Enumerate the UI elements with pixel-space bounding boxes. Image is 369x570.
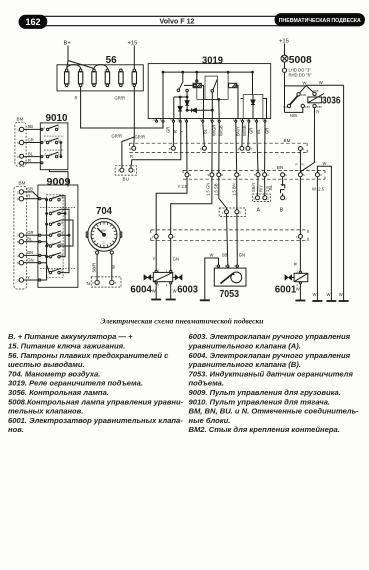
- svg-text:2: 2: [166, 283, 168, 287]
- BN pin (to B): [281, 173, 288, 178]
- BN pin BN (to 7053): [235, 122, 242, 177]
- svg-text:GR/R: GR/R: [135, 135, 145, 140]
- connector A: [251, 177, 270, 214]
- fuse jumper F3-F4: [94, 65, 107, 69]
- wire SB/R from 704 to N block: [92, 254, 98, 280]
- wire C30 to right ground run W: [300, 80, 344, 301]
- svg-text:ные блоки.: ные блоки.: [189, 416, 231, 425]
- header section pill: [275, 14, 365, 26]
- BN pin R/Y (to A): [263, 122, 270, 177]
- svg-text:ПНЕВМАТИЧЕСКАЯ ПОДВЕСКА: ПНЕВМАТИЧЕСКАЯ ПОДВЕСКА: [279, 18, 361, 24]
- svg-text:GR: GR: [166, 127, 171, 133]
- svg-text:1: 1: [285, 196, 287, 200]
- wire Y to 6004: [153, 238, 157, 270]
- svg-text:7: 7: [17, 234, 19, 238]
- 9009 switch row 3: [49, 220, 64, 226]
- svg-text:3: 3: [320, 173, 322, 177]
- BN pin (to 6001 run): [298, 173, 305, 178]
- ground W run 1: [312, 292, 322, 301]
- svg-text:R: R: [75, 96, 78, 101]
- svg-text:+15: +15: [279, 39, 289, 45]
- svg-text:+15: +15: [128, 41, 138, 47]
- connector B: [268, 177, 287, 214]
- wire R from C85 down to BN: [301, 108, 320, 172]
- svg-text:6004: 6004: [130, 284, 152, 296]
- label 6004: [130, 284, 152, 296]
- control panel 9010 (tractor): [15, 112, 68, 170]
- connector rail N (long): [151, 230, 308, 241]
- svg-text:15. Питание ключа зажигания.: 15. Питание ключа зажигания.: [8, 342, 125, 351]
- indicator lamp 5008: [279, 39, 312, 113]
- svg-text:5008: 5008: [289, 54, 312, 66]
- svg-text:BL: BL: [268, 184, 273, 190]
- BM rail pin (GR/R): [129, 146, 135, 151]
- 704 dial ticks: [91, 222, 117, 248]
- svg-text:11: 11: [49, 153, 52, 157]
- svg-text:3: 3: [17, 279, 19, 283]
- BN pin SB (to 7053): [217, 122, 224, 177]
- svg-text:12: 12: [60, 220, 64, 224]
- svg-text:Y 2.5: Y 2.5: [178, 184, 188, 189]
- 3019 diode D1: [178, 97, 182, 119]
- svg-text:Электрическая схема пневматиче: Электрическая схема пневматической подве…: [100, 317, 263, 326]
- BN pin W (ground return): [315, 173, 322, 178]
- svg-text:R: R: [28, 158, 31, 163]
- wire Y2.5 route to valve 6004: [156, 177, 188, 235]
- svg-text:R: R: [293, 262, 298, 265]
- ground 6001: [295, 300, 305, 302]
- svg-text:R: R: [130, 154, 133, 159]
- wire GR/R branch to BU pin 1: [122, 137, 134, 168]
- valve symbol left of 6001: [285, 275, 294, 281]
- svg-text:15: 15: [152, 118, 156, 122]
- 3019 output sub-box with diode D4: [241, 72, 267, 118]
- svg-text:N/B: N/B: [290, 113, 297, 118]
- svg-text:SB/Y: SB/Y: [251, 182, 256, 192]
- svg-text:БМ: БМ: [102, 229, 107, 233]
- svg-text:13: 13: [52, 210, 56, 214]
- svg-text:W: W: [210, 253, 214, 258]
- 3019 junction row: [174, 96, 188, 118]
- 3036 terminal C87: [301, 104, 310, 109]
- svg-text:8: 8: [221, 173, 223, 177]
- svg-text:GR: GR: [248, 128, 253, 134]
- svg-text:W: W: [339, 292, 343, 297]
- svg-text:6001. Электрозатвор уравнитель: 6001. Электрозатвор уравнительных клапа-: [8, 416, 183, 425]
- wire GR/R branch to BM rail pin: [133, 137, 136, 146]
- 3019 relay contact K2: [211, 79, 220, 118]
- wire W 6004 to ground: [152, 284, 156, 300]
- 9010 switch row 2: [46, 138, 61, 144]
- svg-text:R: R: [316, 110, 319, 115]
- 7053 top pins: [215, 264, 238, 268]
- svg-text:подъема.: подъема.: [189, 379, 225, 388]
- 3019 wire colour labels: [166, 125, 270, 136]
- header title Volvo F 12: [160, 17, 195, 25]
- 3019 pin numbers: [152, 118, 264, 122]
- svg-text:ВМ: ВМ: [17, 117, 24, 122]
- BN pin GN (to 6003): [208, 122, 214, 177]
- 3019 internal top bus: [162, 71, 253, 118]
- connector rail BM: [129, 138, 307, 152]
- wire label R under fuse 2: [75, 96, 78, 101]
- svg-text:BL: BL: [27, 237, 33, 242]
- ground 6003: [166, 299, 176, 301]
- wire GN from BM2 to 7053: [237, 214, 245, 265]
- svg-text:1: 1: [253, 196, 255, 200]
- svg-text:W: W: [323, 161, 327, 166]
- svg-text:15: 15: [52, 196, 56, 200]
- wire SB route to BM2: [213, 177, 226, 210]
- wire W2.5 from BN pin down to ground: [312, 177, 325, 301]
- wire 5008 to C65: [285, 81, 314, 93]
- fuse F6: [132, 69, 136, 87]
- svg-text:△: △: [103, 240, 106, 244]
- 3019 relay coil K1: [184, 83, 204, 118]
- wire GR/R from fuse6 down: [112, 87, 145, 140]
- 9010 switch row 1: [46, 125, 59, 131]
- wire W 7053 to ground: [205, 253, 219, 301]
- 3019 contact terminal circle: [186, 89, 189, 97]
- svg-text:704. Манометр воздуха.: 704. Манометр воздуха.: [8, 369, 100, 378]
- wire N/B bottom link 5008-C87: [285, 108, 303, 118]
- svg-text:W: W: [313, 292, 317, 297]
- N rail pin 1 (Y): [152, 234, 158, 239]
- svg-text:162: 162: [25, 17, 40, 27]
- svg-text:1: 1: [134, 169, 136, 173]
- 3019 lower junction row: [186, 109, 213, 111]
- svg-text:1: 1: [222, 210, 224, 214]
- svg-text:C87: C87: [305, 105, 311, 109]
- svg-text:R: R: [302, 163, 304, 167]
- wire W bracket over BN to ground run: [317, 161, 331, 301]
- node B+: [64, 41, 95, 70]
- air manometer 704: [86, 205, 122, 251]
- 3036 terminal C65: [313, 89, 319, 96]
- svg-text:5008.Контрольная лампа управле: 5008.Контрольная лампа управления уравни…: [8, 397, 184, 406]
- 9010 connector pins BM: [17, 127, 24, 165]
- 3036 terminal KV3: [283, 104, 290, 109]
- svg-text:1.5 BN: 1.5 BN: [231, 183, 236, 196]
- svg-text:3056. Контрольная лампа.: 3056. Контрольная лампа.: [8, 388, 109, 397]
- svg-text:9010: 9010: [46, 112, 68, 124]
- svg-text:W: W: [173, 289, 177, 294]
- svg-text:78: 78: [170, 118, 174, 122]
- connector BM2 (to 7053): [219, 208, 245, 217]
- wire R to 6001: [299, 238, 301, 271]
- svg-text:10: 10: [49, 139, 53, 143]
- svg-text:BL: BL: [28, 151, 34, 156]
- svg-text:31: 31: [52, 269, 56, 273]
- svg-text:11: 11: [52, 220, 55, 224]
- svg-text:56. Патроны плавких предохрани: 56. Патроны плавких предохранителей с: [8, 351, 169, 360]
- svg-text:тельных клапанов.: тельных клапанов.: [8, 407, 83, 416]
- solenoid valve block 6004/6003: [153, 269, 172, 287]
- svg-text:26: 26: [60, 253, 64, 257]
- BM rail pin (BL): [200, 122, 206, 151]
- svg-text:2: 2: [92, 281, 94, 285]
- svg-text:1: 1: [17, 190, 19, 194]
- svg-text:1.5 SB: 1.5 SB: [213, 183, 218, 196]
- svg-text:ВМ, BN, BU. и N. Отмеченные со: ВМ, BN, BU. и N. Отмеченные соединитель-: [189, 407, 360, 416]
- svg-text:7: 7: [254, 173, 256, 177]
- svg-text:нов.: нов.: [8, 425, 24, 434]
- 9009 switch row 6: [49, 253, 64, 259]
- svg-text:1: 1: [152, 235, 154, 239]
- 3019 coil terminal circle: [196, 72, 198, 82]
- 9009 inner switch enclosure: [46, 195, 63, 278]
- svg-text:6: 6: [17, 261, 19, 265]
- svg-text:GR/R: GR/R: [115, 96, 125, 101]
- 9009 wires to box: [24, 187, 50, 281]
- 3036 switch lever: [290, 96, 298, 105]
- switch 3036: [308, 94, 341, 107]
- svg-text:9: 9: [129, 147, 131, 151]
- ground 6004: [151, 299, 161, 301]
- svg-text:ВМ2. Стык для крепления контей: ВМ2. Стык для крепления контейнера.: [189, 425, 340, 434]
- ground W run 3: [339, 292, 349, 301]
- svg-text:9009. Пульт управления для гру: 9009. Пульт управления для грузовика.: [189, 388, 341, 397]
- svg-text:1: 1: [296, 269, 298, 273]
- svg-text:1: 1: [303, 147, 305, 151]
- svg-text:уравнительного клапана (А).: уравнительного клапана (А).: [188, 342, 301, 351]
- 9009 internal right links: [40, 196, 75, 273]
- valve symbol right of 6003: [173, 275, 182, 281]
- 3019 bottom pins: [156, 119, 267, 123]
- wire R from fuse2 down and right to 3019 pin 15: [81, 87, 163, 128]
- svg-text:В. + Питание аккумулятора — +: В. + Питание аккумулятора — +: [8, 332, 133, 341]
- svg-text:3036: 3036: [322, 95, 341, 107]
- legend left column: [8, 332, 184, 434]
- svg-text:C85: C85: [317, 105, 323, 109]
- header page badge 162: [19, 15, 47, 28]
- 3019 diode D3 (horizontal): [192, 108, 197, 112]
- 9009 connector pins BM: [17, 190, 24, 283]
- 9009 switch row 2: [49, 209, 64, 215]
- svg-text:704: 704: [96, 205, 112, 217]
- wire W 6003 to ground: [171, 284, 177, 300]
- wire R from BN down to N rail and valve 6001: [293, 177, 300, 266]
- BN pin SB/Y (to A): [254, 122, 260, 177]
- svg-text:7: 7: [251, 147, 253, 151]
- 3019 relay K2 enclosure: [197, 72, 228, 99]
- svg-text:1: 1: [296, 235, 298, 239]
- svg-text:BN: BN: [27, 250, 33, 255]
- svg-text:R/Y: R/Y: [258, 185, 263, 192]
- svg-text:A: A: [257, 208, 261, 214]
- svg-text:SB: SB: [28, 124, 34, 129]
- BN pin Y (to 6004): [185, 122, 192, 177]
- svg-text:B: B: [280, 208, 284, 214]
- svg-text:2: 2: [173, 235, 175, 239]
- 9009 internal left bus: [41, 199, 48, 280]
- 3019 relay contact K1: [177, 72, 183, 92]
- 3019 diode D2: [185, 97, 189, 110]
- 9009 switch row 4: [49, 231, 64, 237]
- 9009 switch row 5: [49, 242, 64, 248]
- wire BN route to BM2: [231, 177, 237, 210]
- svg-text:25: 25: [52, 253, 56, 257]
- svg-text:2: 2: [158, 283, 160, 287]
- svg-text:7053: 7053: [219, 288, 239, 300]
- svg-text:W: W: [152, 289, 156, 294]
- fuse jumper F1-F2: [67, 65, 81, 69]
- svg-text:32: 32: [60, 269, 64, 273]
- svg-text:7053. Индуктивный датчик огран: 7053. Индуктивный датчик ограничителя: [189, 369, 354, 378]
- svg-text:3019: 3019: [202, 55, 223, 67]
- 9010 internal bus: [44, 136, 64, 157]
- svg-text:56: 56: [106, 54, 117, 66]
- svg-text:1.5 GN: 1.5 GN: [205, 183, 210, 196]
- svg-text:2: 2: [240, 210, 242, 214]
- svg-text:SB: SB: [27, 187, 33, 192]
- 9009 switch row 1: [49, 195, 64, 201]
- svg-text:W: W: [111, 265, 116, 269]
- svg-text:4: 4: [267, 173, 269, 177]
- svg-text:уравнительного клапана (В).: уравнительного клапана (В).: [188, 360, 301, 369]
- connector block N: [87, 277, 122, 287]
- svg-text:W: W: [296, 287, 300, 292]
- svg-text:8: 8: [169, 147, 171, 151]
- svg-text:W: W: [312, 187, 316, 192]
- header bar: [33, 16, 364, 25]
- svg-text:3: 3: [43, 125, 45, 129]
- label 6001: [275, 284, 297, 296]
- wire W from 704 to N block: [111, 254, 116, 280]
- node +15 (fuse feed): [128, 41, 138, 70]
- wire GN route to valve 6003: [171, 177, 212, 235]
- svg-text:8: 8: [17, 240, 19, 244]
- solenoid valve 6001: [294, 269, 308, 287]
- svg-text:BN: BN: [277, 165, 283, 170]
- fuse F4: [105, 69, 109, 87]
- ground 7053: [200, 299, 210, 301]
- svg-text:24: 24: [60, 242, 64, 246]
- fuse box 56: [57, 54, 143, 91]
- svg-text:GN: GN: [27, 258, 33, 263]
- inductive sensor 7053: [214, 268, 246, 300]
- relay 3019 (lift limiter relay) box: [148, 55, 271, 119]
- 3036 terminal C85: [313, 104, 322, 109]
- svg-text:шестью выводами.: шестью выводами.: [8, 360, 85, 369]
- fuse F3: [92, 69, 96, 87]
- svg-text:B+: B+: [64, 41, 72, 47]
- svg-text:6001: 6001: [275, 284, 297, 296]
- svg-text:GR/R: GR/R: [112, 134, 122, 139]
- wire label GR/R under fuse 6: [115, 96, 125, 101]
- BM rail pin (GR right): [246, 122, 253, 151]
- svg-text:Y: Y: [27, 275, 30, 280]
- svg-text:6003: 6003: [177, 284, 198, 296]
- fuse F1: [65, 69, 69, 87]
- BM rail pin (R to 6001): [298, 147, 305, 152]
- svg-text:9: 9: [17, 141, 19, 145]
- svg-text:SB: SB: [222, 253, 228, 258]
- valve symbol left of 6004: [144, 275, 153, 281]
- svg-text:8: 8: [17, 155, 19, 159]
- svg-text:N: N: [87, 281, 91, 287]
- 3019 relay coil K2: [228, 83, 238, 118]
- 9009 switch row 7: [49, 268, 64, 274]
- svg-text:ВМ: ВМ: [284, 138, 291, 143]
- N rail pin 2 (GN): [169, 234, 176, 239]
- svg-text:C30: C30: [301, 93, 307, 97]
- svg-text:GR: GR: [27, 230, 33, 235]
- svg-text:1: 1: [190, 173, 192, 177]
- control panel 9009 (truck): [14, 176, 78, 289]
- wire W 6001 to ground: [296, 284, 301, 301]
- svg-text:72: 72: [184, 118, 188, 122]
- wire GN to 6003: [171, 238, 179, 270]
- 704 needle: [97, 228, 106, 244]
- 3036 terminal C30: [297, 93, 307, 97]
- svg-text:GN: GN: [239, 253, 245, 258]
- svg-text:ВМ: ВМ: [19, 181, 26, 186]
- svg-text:RHD DO "6": RHD DO "6": [289, 73, 312, 78]
- svg-text:2: 2: [267, 196, 269, 200]
- wire R from BU pin 2 up and right to 3019 pin: [130, 122, 181, 169]
- svg-text:Y: Y: [153, 257, 156, 262]
- svg-text:GN: GN: [173, 257, 179, 262]
- svg-text:W: W: [319, 80, 323, 85]
- svg-text:2: 2: [239, 173, 241, 177]
- svg-text:6: 6: [285, 173, 287, 177]
- svg-text:3: 3: [17, 161, 19, 165]
- svg-text:9010. Пульт управления для тяг: 9010. Пульт управления для тягача.: [189, 397, 331, 406]
- N rail pin (R 6001): [296, 234, 303, 239]
- svg-text:GR: GR: [28, 137, 34, 142]
- wire SB from BM2 to 7053: [222, 214, 228, 265]
- svg-text:C65: C65: [313, 89, 319, 93]
- fuse F5: [119, 69, 123, 87]
- svg-text:W: W: [327, 292, 331, 297]
- svg-text:BU: BU: [123, 177, 129, 182]
- wire 9010 to 9009: [50, 170, 69, 187]
- svg-text:9: 9: [17, 197, 19, 201]
- 9010 switch row 3: [46, 152, 61, 158]
- svg-text:23: 23: [52, 242, 56, 246]
- svg-text:2: 2: [238, 147, 240, 151]
- svg-text:R: R: [27, 194, 30, 199]
- legend right column: [188, 332, 360, 434]
- fuse F2: [78, 69, 82, 87]
- svg-text:W: W: [303, 81, 307, 86]
- svg-text:10: 10: [200, 147, 204, 151]
- svg-text:SB/R: SB/R: [92, 263, 97, 273]
- svg-text:6003. Электроклапан ручного уп: 6003. Электроклапан ручного управления: [189, 332, 351, 341]
- svg-text:3019. Реле ограничителя подъем: 3019. Реле ограничителя подъема.: [8, 379, 143, 388]
- connector rail BN: [183, 165, 325, 179]
- svg-text:9: 9: [208, 173, 210, 177]
- svg-text:Volvo F 12: Volvo F 12: [160, 17, 195, 25]
- svg-text:21: 21: [52, 231, 56, 235]
- svg-text:6004. Электроклапан ручного уп: 6004. Электроклапан ручного управления: [189, 351, 351, 360]
- 704 terminals: [96, 251, 114, 254]
- svg-text:5: 5: [303, 173, 305, 177]
- svg-text:KV3: KV3: [283, 105, 289, 109]
- svg-text:1: 1: [115, 281, 117, 285]
- BM rail pin (GR): [169, 122, 175, 151]
- svg-text:5: 5: [58, 125, 60, 129]
- 9010 wires to box: [24, 124, 47, 164]
- svg-text:Y: Y: [179, 130, 184, 133]
- svg-text:R: R: [296, 163, 298, 167]
- svg-text:9009: 9009: [47, 176, 71, 188]
- svg-text:14: 14: [60, 210, 64, 214]
- svg-text:22: 22: [60, 231, 64, 235]
- svg-text:4: 4: [17, 254, 19, 258]
- wire BM pin to BN pin (x300): [296, 151, 304, 173]
